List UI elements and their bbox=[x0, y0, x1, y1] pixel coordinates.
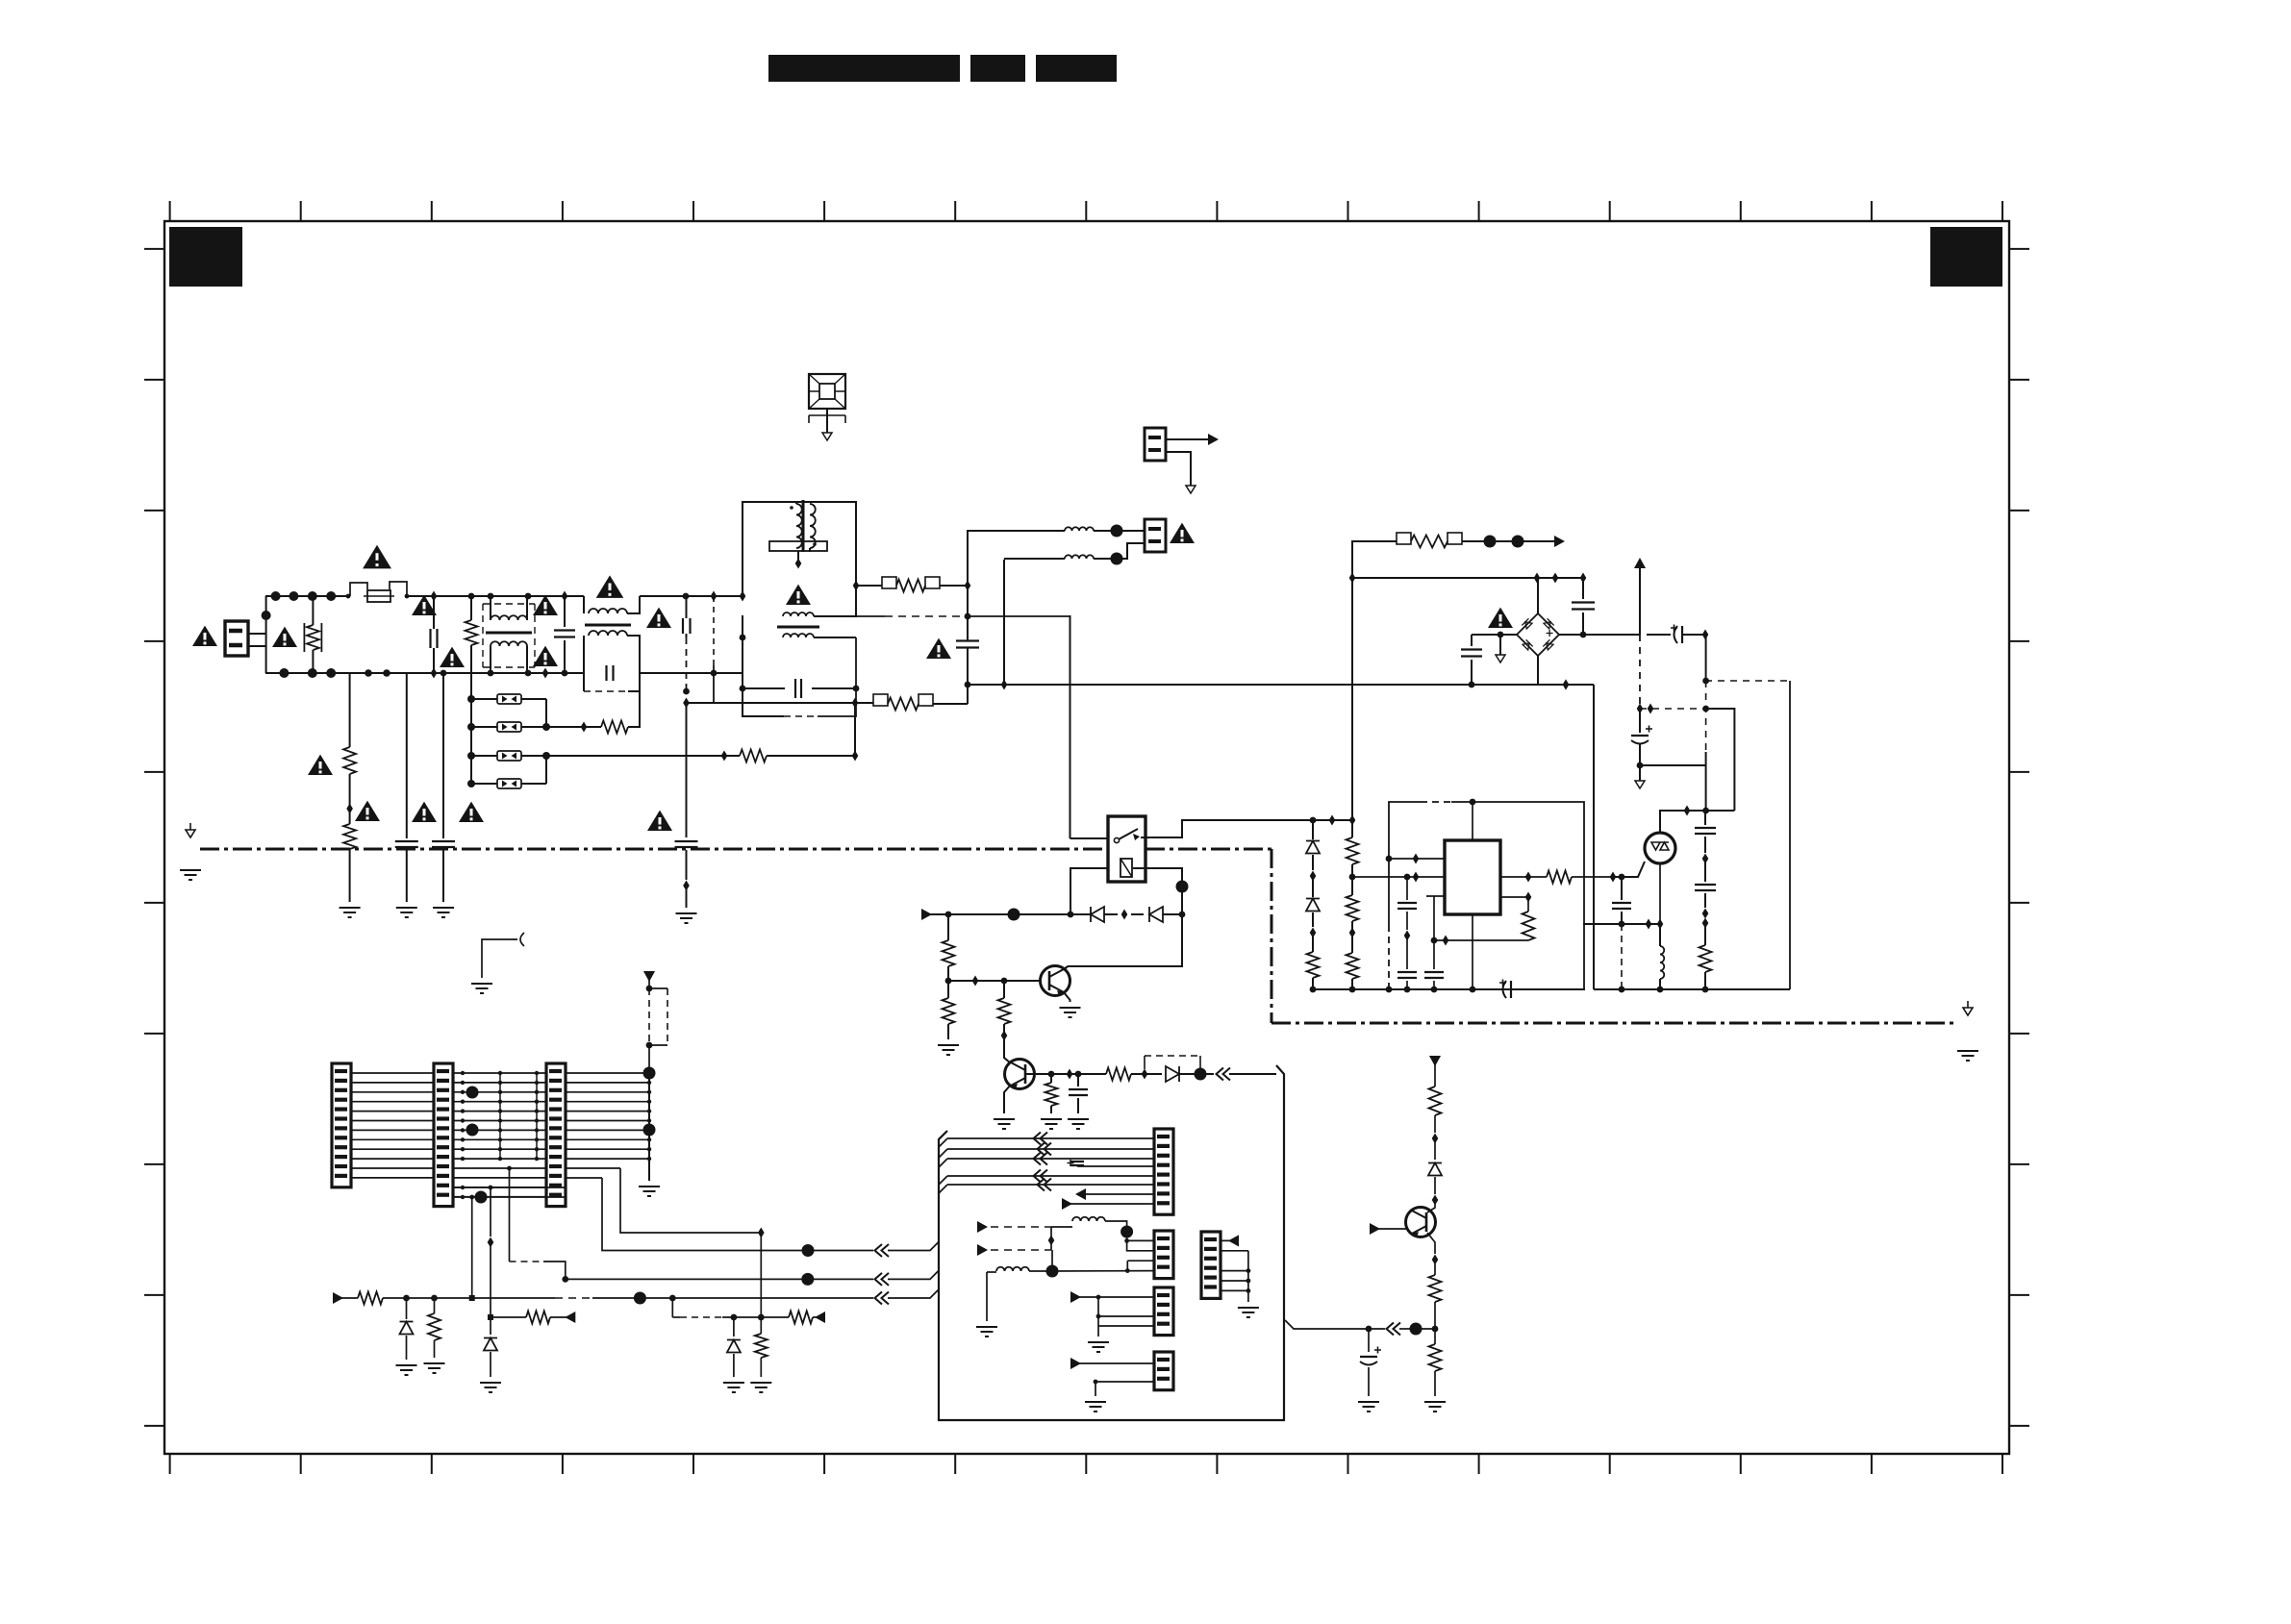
chevrons on bundle bbox=[1034, 1133, 1052, 1191]
capacitor C11 bbox=[1461, 635, 1482, 685]
wire left column x1365 bbox=[1310, 817, 1317, 839]
fusible link F3 bbox=[471, 722, 546, 732]
varistor R1 bbox=[304, 596, 321, 673]
junction diamonds bottom bus bbox=[431, 668, 549, 679]
choke L2 common-mode bbox=[584, 596, 640, 673]
resistor R9 upper bbox=[943, 914, 955, 984]
transformer T2 coupling bbox=[743, 579, 856, 673]
wire out top bbox=[1352, 541, 1397, 578]
warning triangle bbox=[192, 626, 217, 646]
wire ic right pin3 bbox=[1500, 872, 1531, 883]
junction dots bottom bus bbox=[279, 668, 567, 678]
resistor R14 bbox=[1307, 933, 1320, 992]
junction dots between J5 J6 bbox=[461, 1071, 539, 1162]
capacitor C3 series bbox=[607, 665, 614, 681]
ground open bridge bbox=[1496, 635, 1505, 662]
connector J2 top bbox=[1145, 428, 1219, 493]
resistor R8 with pads output bbox=[1397, 533, 1565, 548]
dashed box jumper bbox=[1145, 1056, 1200, 1069]
wire x1773 vertical bbox=[1702, 635, 1709, 811]
wire y=731 rail bbox=[687, 698, 874, 709]
dashed input 2 bbox=[977, 1244, 988, 1256]
warning triangle bbox=[459, 802, 484, 822]
wire bottom rail right bbox=[1594, 987, 1790, 993]
wire J6 pin11 bbox=[507, 1166, 765, 1238]
wire J5 pin14 bbox=[453, 1191, 566, 1204]
resistor R23 bbox=[750, 1317, 771, 1392]
resistor R3 bbox=[740, 750, 858, 762]
wire y961 rail bbox=[1583, 919, 1663, 930]
inductor L4 bbox=[1004, 553, 1123, 565]
wire q1 emitter bbox=[1060, 992, 1081, 1017]
transformer T2 lower box bbox=[743, 637, 856, 716]
wire x1006 vertical bbox=[967, 586, 969, 704]
transistor Q1 bbox=[948, 966, 1070, 997]
connector J9 bbox=[1154, 1287, 1173, 1336]
wire down to chassis cap bbox=[686, 703, 688, 837]
wire links right verticals bbox=[542, 699, 550, 784]
wire bbox=[1051, 1069, 1081, 1080]
capacitor C6 bbox=[683, 596, 691, 637]
wires to J8 bbox=[1124, 1232, 1154, 1251]
wires J6 out to ground bus bbox=[566, 1071, 651, 1162]
big dots J5 bbox=[466, 1087, 479, 1137]
bundle entry diagonals bbox=[939, 1138, 947, 1193]
wire J9 feed1 bbox=[1070, 1291, 1154, 1303]
electrolytic C13 bbox=[1647, 625, 1708, 644]
wire L7 ground bbox=[976, 1272, 997, 1337]
wire J7 pin8 arrow bbox=[1062, 1198, 1154, 1210]
capacitor C19 bbox=[1612, 877, 1631, 927]
resistor R26 bbox=[1424, 1329, 1446, 1412]
fuse F1 bbox=[346, 582, 410, 602]
wires J4-J5 bbox=[351, 1073, 434, 1178]
wire relay switch in bbox=[1070, 837, 1109, 839]
wire bridge left bbox=[1472, 632, 1517, 638]
wire x529 drop bbox=[510, 1168, 569, 1283]
dashed wire bbox=[683, 637, 690, 709]
wire ic left pin2 bbox=[1352, 872, 1445, 883]
wire main line E bbox=[333, 1292, 676, 1305]
wire right loop top bbox=[1593, 685, 1595, 989]
resistor R16 bbox=[1347, 877, 1359, 938]
warning triangle bbox=[533, 646, 558, 666]
capacitor C10 bbox=[1572, 578, 1595, 637]
resistor R2 bbox=[601, 673, 640, 734]
dashed input 2 wire bbox=[977, 1249, 1051, 1251]
dashed jumper x675 bbox=[643, 971, 667, 1073]
resistor R25 bbox=[1429, 1260, 1442, 1332]
connector J4 bbox=[332, 1063, 351, 1187]
border frame with ticks bbox=[144, 201, 2029, 1474]
arrow down feed bbox=[1429, 1056, 1441, 1087]
wire top bus bbox=[265, 595, 743, 597]
wire J6 pin12 bbox=[566, 1178, 815, 1257]
wire x1044 vertical bbox=[1003, 560, 1005, 685]
wire long rail y712 bbox=[965, 680, 1594, 690]
resistor R10 lower bbox=[938, 981, 959, 1055]
wire link row3 long bbox=[546, 751, 740, 762]
capacitor C2 X-cap bbox=[554, 596, 575, 673]
warning triangle bbox=[596, 575, 624, 598]
connector J1 mains input bbox=[225, 621, 266, 656]
warning triangle bbox=[786, 585, 811, 605]
transformer T1 primary windings bbox=[790, 500, 817, 552]
chassis arrow left bbox=[180, 823, 201, 880]
junction diamonds top bus bbox=[431, 591, 718, 602]
inductor L5 vertical bbox=[1657, 924, 1665, 992]
diode D6 bbox=[1306, 876, 1320, 938]
wire bottom bus bbox=[265, 672, 743, 674]
capacitor C20 col right bbox=[1695, 811, 1716, 929]
arrow up B+ bbox=[1634, 558, 1646, 635]
connector J6 bbox=[546, 1063, 566, 1207]
transistor Q3 bbox=[1406, 1200, 1436, 1237]
wire y796 loop bbox=[1640, 764, 1706, 766]
wire x1112 vertical to relay bbox=[1070, 615, 1071, 838]
warning triangle bbox=[1488, 608, 1513, 628]
connector J7 bbox=[1154, 1129, 1173, 1214]
resistor R27 vertical bbox=[466, 596, 478, 673]
wire relay to rail bbox=[1141, 815, 1352, 838]
wire rail y640 to x1112 bbox=[965, 613, 1070, 620]
wire relay coil right bbox=[1133, 868, 1189, 914]
dashed wire transformer to cap bbox=[856, 615, 968, 617]
resistor R19 bbox=[1528, 871, 1616, 884]
wire x1406 tall vertical bbox=[1351, 578, 1353, 816]
dashed wire y737 bbox=[1640, 708, 1705, 710]
wire diode rail to q1 collector bbox=[1068, 914, 1182, 966]
bundle wires bbox=[947, 1138, 1154, 1185]
warning triangle bbox=[647, 811, 672, 831]
wire ic left pin1 bbox=[1386, 854, 1445, 864]
resistor R6 with pads bbox=[873, 694, 968, 711]
title block bar 3 bbox=[1036, 55, 1117, 82]
hook symbol bbox=[471, 933, 524, 993]
wire x1861 vertical bbox=[1789, 681, 1791, 989]
connector J10 bbox=[1154, 1352, 1173, 1390]
capacitor C9 bbox=[956, 616, 979, 685]
resistor R24 bbox=[1429, 1087, 1442, 1144]
ground bus vertical bbox=[639, 1067, 660, 1197]
capacitor C16 bbox=[1397, 874, 1417, 993]
inductor L6 bbox=[1051, 1217, 1133, 1238]
resistor R5 to chassis bbox=[340, 809, 361, 917]
vertical tie lines bbox=[500, 1073, 537, 1159]
wire y1382 rail bbox=[1285, 1320, 1435, 1336]
warning triangle bbox=[308, 755, 333, 775]
wire J7 pin7 arrow bbox=[1075, 1188, 1154, 1200]
choke L2 dashed bypass bbox=[584, 673, 640, 691]
wire q1 rail bbox=[921, 909, 1079, 921]
transformer T1 plate bbox=[769, 541, 827, 569]
wire bridge bottom bbox=[1538, 656, 1569, 690]
dashed wire y708 right bbox=[1705, 680, 1790, 682]
chassis arrow right bbox=[1957, 1001, 1978, 1061]
warning triangle bbox=[412, 595, 437, 615]
fusible link F2 bbox=[471, 694, 546, 704]
capacitor C15 bbox=[1068, 1074, 1089, 1129]
diode D4 bbox=[1145, 1066, 1207, 1082]
capacitor C4 Y to chassis bbox=[395, 673, 418, 917]
capacitor C5 Y to chassis bbox=[432, 673, 455, 917]
junction dots top bus bbox=[271, 591, 690, 601]
connector J5 bbox=[434, 1063, 453, 1207]
transformer T1 primary box bbox=[743, 502, 856, 596]
title block bar 1 bbox=[768, 55, 960, 82]
wire J9 gnd bbox=[1088, 1314, 1154, 1352]
bridge rectifier D1 bbox=[1517, 578, 1559, 656]
resistor R17 bbox=[1347, 933, 1359, 992]
wire opto input bbox=[1613, 862, 1645, 880]
choke L1 common-mode bbox=[486, 596, 532, 673]
wire J10 feed bbox=[1070, 1358, 1154, 1369]
IC box outer bbox=[1386, 799, 1584, 993]
wire L3 feed from node bbox=[968, 531, 1065, 586]
resistor R20 bbox=[1699, 923, 1712, 989]
warning triangle above fuse bbox=[363, 545, 391, 569]
dashed wire col 742 bbox=[711, 596, 718, 703]
fusible link F5 bbox=[471, 779, 546, 788]
connector J3 bbox=[1122, 519, 1166, 559]
wire q2 base right bbox=[1025, 1071, 1054, 1078]
optocoupler U2 bbox=[1645, 833, 1675, 924]
diode D5 bbox=[1306, 841, 1320, 882]
capacitor C17 bbox=[1424, 896, 1445, 992]
wire x490 drop bbox=[469, 1195, 475, 1301]
wire bottom rail left bbox=[1313, 988, 1585, 990]
inductor L3 bbox=[1065, 525, 1123, 537]
warning triangle bbox=[1170, 523, 1195, 543]
diode D7 bbox=[396, 1298, 417, 1375]
warning triangle bbox=[646, 608, 671, 628]
wire J7 pin4 cap bbox=[1068, 1160, 1155, 1166]
wire L7 to J8 pin3 bbox=[1127, 1261, 1154, 1270]
wire loop box right bbox=[1706, 709, 1735, 811]
inductor L7 bbox=[987, 1250, 1154, 1278]
diode D3 bbox=[1131, 907, 1185, 922]
warning triangle bbox=[533, 595, 558, 615]
IC U1 bbox=[1445, 840, 1500, 914]
wire feedback loop bbox=[1434, 936, 1528, 946]
wire to box bbox=[1200, 1068, 1276, 1081]
resistor R15 bbox=[1347, 815, 1359, 881]
wire J10 gnd bbox=[1085, 1380, 1154, 1412]
capacitor C8 in box bbox=[740, 679, 860, 698]
zener D8 bbox=[480, 1338, 501, 1393]
dashed wire x1705 bbox=[1637, 635, 1654, 714]
warning triangle bbox=[926, 638, 951, 659]
connector J11 standalone bbox=[1201, 1232, 1221, 1298]
wire J9 feed2 bbox=[1098, 1297, 1154, 1316]
wire ic top pin bbox=[1472, 802, 1473, 840]
corner square top-left bbox=[169, 227, 242, 287]
warning triangle bbox=[355, 801, 380, 821]
wire y1330 to box bbox=[566, 1270, 939, 1286]
choke L1 dashed outline bbox=[483, 604, 535, 667]
diode D2 bbox=[1079, 907, 1127, 922]
wires J11 bbox=[1221, 1235, 1259, 1317]
transistor Q2 bbox=[1004, 1036, 1035, 1089]
resistor R7 with pads top bbox=[853, 577, 971, 592]
big box outline bbox=[939, 1065, 1284, 1420]
wire q2 emitter bbox=[994, 1085, 1015, 1129]
warning triangle bbox=[272, 627, 297, 647]
wire opto top bbox=[1660, 806, 1734, 834]
electrolytic C14 bbox=[1631, 709, 1652, 768]
wire ic bottom pin bbox=[1470, 914, 1476, 992]
diode D9 bbox=[1428, 1138, 1442, 1206]
wire bridge right bbox=[1559, 634, 1640, 636]
dashed wire bbox=[1619, 924, 1625, 992]
resistor R4 vertical bbox=[343, 673, 356, 814]
wire J5 pin13 drop bbox=[453, 1186, 566, 1335]
wires J5-J6 bbox=[453, 1073, 546, 1197]
wire ic right pin lower bbox=[1500, 892, 1531, 903]
wire q1 collector bbox=[1064, 966, 1068, 970]
connector J8 bbox=[1154, 1231, 1173, 1279]
warning triangle bbox=[440, 647, 465, 667]
wire mains left vertical bbox=[262, 596, 271, 673]
relay RY1 bbox=[1108, 816, 1145, 882]
chassis earth dash-dot line bbox=[200, 849, 1955, 1023]
zener D10 bbox=[723, 1317, 744, 1392]
wire q3 base bbox=[1370, 1223, 1406, 1235]
wire rail y601 bbox=[1349, 573, 1587, 584]
wire link row2 to resistor bbox=[546, 722, 601, 733]
wire line D left bbox=[488, 1312, 575, 1324]
spark gap bbox=[809, 374, 845, 440]
resistor R12 bbox=[1041, 1074, 1062, 1129]
node diamond bbox=[740, 591, 746, 641]
wire relay coil left bbox=[1070, 868, 1108, 913]
capacitor C1 X-cap bbox=[431, 596, 438, 673]
wire line E to box bbox=[672, 1289, 939, 1305]
warning triangle bbox=[412, 802, 437, 822]
resistor R21 bbox=[424, 1298, 445, 1373]
resistor R13 bbox=[1078, 1068, 1147, 1081]
electrolytic C21 bbox=[1358, 1329, 1381, 1412]
resistor R18 feedback bbox=[1523, 897, 1535, 940]
electrolytic C18 on rail bbox=[1499, 980, 1511, 999]
wire q3 emitter bbox=[1427, 1233, 1438, 1265]
wire line D right bbox=[672, 1298, 825, 1324]
corner square top-right bbox=[1930, 227, 2002, 287]
wire pin12 to box bbox=[808, 1242, 939, 1258]
capacitor C7 Y chassis bbox=[675, 841, 698, 923]
wire r3 up bbox=[854, 704, 856, 756]
fusible link F4 bbox=[471, 751, 546, 761]
resistor R11 q2 chain bbox=[998, 981, 1011, 1041]
title block bar 2 bbox=[970, 55, 1025, 82]
wire to open arrow bbox=[1635, 765, 1645, 788]
dashed input 1 bbox=[977, 1221, 1054, 1250]
wire x791 drop bbox=[758, 1233, 765, 1320]
wire links left vertical bbox=[467, 673, 475, 787]
